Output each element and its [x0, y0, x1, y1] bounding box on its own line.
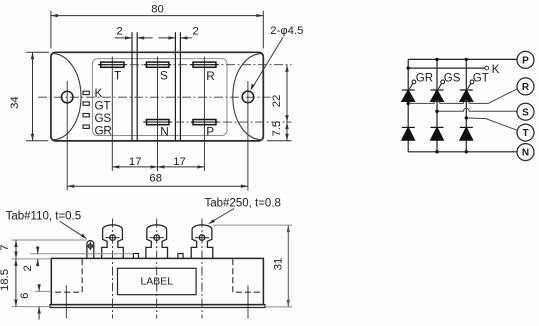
pin label GS: [95, 111, 112, 125]
label S: [160, 69, 168, 83]
right slot lines: [175, 32, 180, 141]
dimension 18.5: [14, 259, 17, 307]
dimension 68: [67, 185, 248, 188]
wire K rail: [408, 67, 485, 69]
svg-text:17: 17: [173, 156, 186, 168]
label N: [160, 125, 168, 139]
left mounting hole: [61, 91, 73, 103]
junction dot N rail branch2: [435, 150, 438, 153]
wire S tap with hop: [437, 108, 517, 111]
svg-text:N: N: [522, 148, 529, 159]
right mounting hole: [242, 91, 254, 103]
thyristor GS: [431, 80, 445, 101]
dimension 17 left: [112, 165, 157, 168]
hidden outline left (dashed): [52, 259, 82, 292]
label P: [206, 125, 214, 139]
svg-text:17: 17: [129, 156, 142, 168]
terminal P: [517, 51, 534, 68]
extension baseplate bottom left: [12, 306, 52, 308]
junction dot K rail branch1: [407, 66, 410, 69]
svg-text:GT: GT: [473, 72, 489, 84]
junction dot top rail branch2: [435, 58, 438, 61]
svg-text:2: 2: [116, 25, 122, 37]
small gate tab: [86, 241, 94, 259]
junction dot top rail branch3: [465, 58, 468, 61]
pin label K: [95, 86, 103, 100]
inner cover outline: [92, 59, 227, 136]
dimension 17 right: [158, 165, 205, 168]
label R: [206, 69, 214, 83]
terminal pad P: [191, 120, 219, 125]
diode branch 3: [460, 127, 473, 140]
svg-text:2: 2: [192, 25, 198, 37]
top edge bump left: [133, 254, 138, 259]
leader Tab#110: [60, 222, 87, 240]
tab tower T: [102, 225, 124, 259]
svg-text:S: S: [522, 107, 529, 118]
svg-text:7: 7: [0, 245, 11, 251]
terminal T: [517, 124, 534, 141]
wire N rail: [408, 151, 517, 153]
svg-text:80: 80: [151, 4, 164, 16]
diode branch 1: [402, 127, 415, 140]
terminal pad S: [144, 62, 171, 67]
dimension 22: [285, 65, 288, 122]
svg-text:Tab#250, t=0.8: Tab#250, t=0.8: [205, 198, 281, 210]
node K open circle: [485, 66, 489, 70]
thyristor GT: [460, 80, 474, 101]
aux pin GR: [83, 125, 89, 128]
extension bump top: [30, 253, 133, 255]
svg-text:K: K: [492, 64, 500, 76]
svg-text:18.5: 18.5: [0, 269, 11, 291]
dimension 6: [37, 284, 40, 320]
svg-text:2-φ4.5: 2-φ4.5: [270, 25, 303, 37]
tab tower R: [191, 225, 213, 259]
label plate: [118, 268, 197, 294]
extension baseplate bottom right: [266, 306, 292, 308]
svg-text:P: P: [206, 125, 214, 139]
centerline front left hole: [65, 285, 67, 318]
centerline top pad row: [98, 64, 292, 66]
thyristor GR: [402, 80, 416, 101]
terminal pad T: [98, 62, 126, 67]
centerline tower T: [112, 219, 114, 319]
centerline bottom pad row: [143, 121, 292, 123]
extension body top left: [12, 258, 52, 260]
svg-text:22: 22: [271, 95, 283, 108]
terminal pad N: [144, 120, 171, 125]
centerline horizontal main: [38, 96, 271, 98]
tab tower S: [146, 225, 168, 259]
baseplate: [50, 305, 265, 308]
svg-text:31: 31: [273, 258, 285, 271]
label T: [114, 69, 121, 83]
dimension 80: [51, 11, 263, 49]
dimension 2 right slot: [158, 36, 191, 39]
terminal pad R: [191, 62, 219, 67]
terminal S: [517, 103, 534, 120]
left slot lines: [132, 32, 137, 141]
centerline tower R: [201, 219, 203, 319]
gate label GT: [473, 72, 489, 84]
svg-text:GR: GR: [95, 124, 112, 138]
pin label GT: [95, 99, 111, 113]
wire R tap with hops: [408, 89, 517, 104]
wire branch 2 (S phase): [436, 59, 438, 151]
svg-text:R: R: [206, 69, 214, 83]
aux pin GT: [83, 102, 89, 105]
wire branch 1 (R phase): [407, 59, 409, 151]
junction dot R tap: [407, 102, 410, 105]
dimension 2 left slot: [115, 36, 153, 39]
centerline section S: [157, 57, 159, 172]
centerline tower S: [156, 219, 158, 319]
node label K: [492, 64, 500, 76]
junction dot T tap: [465, 116, 468, 119]
wire branch 3 (T phase): [465, 59, 467, 151]
centerline left hole vertical: [66, 81, 68, 191]
right mounting ear arc: [233, 54, 262, 140]
svg-text:Tab#110, t=0.5: Tab#110, t=0.5: [6, 210, 82, 222]
centerline section T: [111, 57, 113, 172]
wire P rail: [408, 58, 517, 60]
centerline right hole vertical: [247, 81, 249, 191]
gate label GS: [444, 72, 461, 84]
svg-text:P: P: [522, 56, 529, 67]
pin label GR: [95, 124, 112, 138]
svg-text:6: 6: [19, 293, 31, 299]
svg-text:N: N: [160, 125, 168, 139]
left mounting ear arc: [53, 54, 81, 140]
aux pin K: [83, 91, 89, 94]
aux pin GS: [83, 114, 89, 117]
junction dot N rail branch3: [465, 150, 468, 153]
extension small tab top: [12, 239, 87, 241]
leader Tab#250: [208, 209, 234, 225]
dimension 31: [287, 225, 290, 307]
svg-text:GS: GS: [444, 72, 461, 84]
extension tab top right: [213, 224, 292, 226]
dimension 2: [36, 246, 39, 266]
svg-text:2: 2: [22, 265, 34, 271]
svg-text:34: 34: [9, 96, 21, 109]
extension hidden bottom left: [35, 290, 52, 292]
junction dot S tap: [435, 110, 438, 113]
hidden outline right (dashed): [233, 259, 263, 292]
centerline section R: [203, 57, 205, 172]
svg-text:T: T: [114, 69, 121, 83]
svg-text:7.5: 7.5: [271, 121, 283, 137]
diode branch 2: [431, 127, 444, 140]
centerline front right hole: [247, 285, 249, 318]
dimension 7: [14, 240, 17, 259]
svg-text:R: R: [522, 82, 530, 93]
dimension 7.5: [267, 122, 292, 141]
terminal R: [517, 78, 534, 95]
module body outline (front view): [51, 258, 263, 304]
gate label GR: [416, 72, 433, 84]
dimension 34: [26, 52, 49, 140]
svg-text:GR: GR: [416, 72, 433, 84]
svg-text:S: S: [160, 69, 168, 83]
svg-text:68: 68: [149, 173, 162, 185]
hole callout 2-phi4.5: [251, 37, 284, 91]
terminal N: [517, 144, 534, 161]
top edge bump right: [178, 254, 183, 259]
module body outline (top view): [51, 52, 263, 141]
wire T tap: [466, 118, 517, 130]
svg-text:T: T: [522, 128, 528, 139]
